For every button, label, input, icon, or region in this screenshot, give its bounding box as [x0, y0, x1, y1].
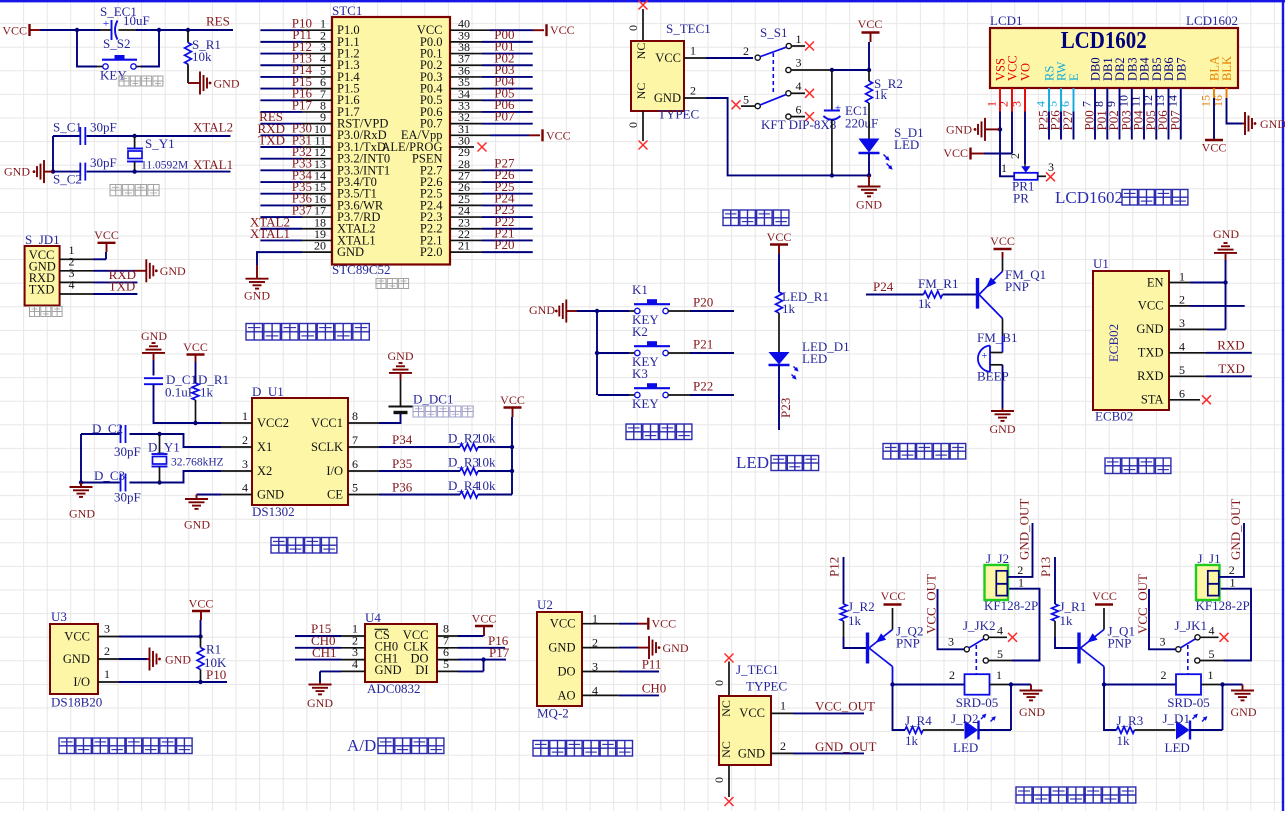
node junction EC1 top: [830, 68, 834, 72]
svg-text:MQ-2: MQ-2: [537, 706, 569, 721]
wire U1 STA: [1169, 399, 1200, 401]
svg-text:6: 6: [1179, 387, 1185, 401]
node junction coil right: [1220, 682, 1224, 686]
svg-text:4: 4: [796, 79, 802, 93]
node junction emitter rail: [890, 682, 894, 686]
svg-text:2: 2: [780, 739, 786, 753]
svg-text:PNP: PNP: [1108, 636, 1132, 651]
resistor S_R1 10k: [187, 30, 189, 43]
title anjian dianlu: [626, 424, 642, 440]
resistor R1 10K: [200, 637, 202, 648]
svg-text:3: 3: [1160, 635, 1166, 649]
svg-text:LED: LED: [1165, 740, 1190, 755]
ground GND (J_Q1 channel): [1223, 684, 1243, 686]
svg-text:GND: GND: [388, 349, 414, 363]
wire XTAL2 net: [53, 135, 80, 137]
svg-text:1k: 1k: [874, 87, 888, 102]
wire VCC_OUT to J_JK2 pin3: [938, 589, 965, 649]
wire LCD pin8 DB1: [1106, 88, 1108, 140]
svg-text:3: 3: [242, 457, 248, 471]
pin 2 wire S_TEC1 GND: [684, 97, 706, 99]
resistor D_R4 10k: [460, 491, 478, 498]
svg-text:0: 0: [626, 25, 640, 31]
svg-text:DO: DO: [557, 665, 575, 679]
svg-text:0: 0: [626, 122, 640, 128]
label niukou dianchi zuo (comment): [413, 406, 424, 417]
wire U1 RXD: [1169, 375, 1206, 377]
svg-text:LED: LED: [953, 740, 978, 755]
svg-text:GND_OUT: GND_OUT: [815, 739, 876, 754]
svg-text:1: 1: [996, 668, 1002, 682]
resistor FM_R1 1k: [924, 291, 943, 298]
resistor J_R2 1k: [840, 604, 847, 621]
svg-text:3: 3: [1179, 316, 1185, 330]
svg-text:5: 5: [443, 657, 449, 671]
svg-text:ECB02: ECB02: [1095, 409, 1133, 424]
pin 1 wire S_JD1 to VCC: [60, 258, 94, 260]
no-connect X S_TEC1 top: [639, 1, 648, 10]
svg-text:STC89C52: STC89C52: [332, 262, 391, 277]
pin7 wire D_U1 SCLK: [348, 446, 379, 448]
transistor FM_Q1 PNP: [976, 278, 979, 309]
svg-text:GND: GND: [1136, 322, 1163, 336]
no-connect X J_JK2 pin4: [1008, 633, 1017, 642]
node junction at S_EC1 left: [75, 28, 79, 32]
svg-text:U2: U2: [537, 597, 553, 612]
svg-text:P20: P20: [494, 237, 514, 252]
svg-text:VCC: VCC: [94, 228, 119, 242]
svg-text:BLK: BLK: [1220, 56, 1234, 81]
LED LED_D1: [769, 352, 790, 365]
svg-text:J_TEC1: J_TEC1: [736, 662, 779, 677]
svg-text:VCC: VCC: [183, 340, 208, 354]
svg-text:VCC: VCC: [546, 128, 571, 142]
svg-text:10k: 10k: [476, 478, 496, 493]
svg-text:CH1: CH1: [312, 645, 337, 660]
svg-text:5: 5: [1209, 647, 1215, 661]
wire LED branch: [893, 685, 906, 731]
svg-text:10uF: 10uF: [123, 13, 150, 28]
wire LED to coil junction: [979, 729, 1012, 731]
wire D_R2 to VCC rail: [478, 446, 512, 448]
svg-text:NC: NC: [634, 43, 648, 60]
wire J_JK1 pin4: [1200, 636, 1218, 638]
svg-text:1: 1: [690, 44, 696, 58]
svg-text:P21: P21: [693, 337, 713, 352]
svg-text:E: E: [1067, 73, 1081, 81]
node junction EC1 bottom: [830, 173, 834, 177]
svg-text:AO: AO: [557, 688, 575, 702]
svg-text:1k: 1k: [1060, 613, 1074, 628]
pin5 wire D_U1 CE: [348, 494, 379, 496]
svg-text:VCC: VCC: [990, 234, 1015, 248]
svg-text:VCC: VCC: [767, 230, 792, 244]
wire U1 VCC: [1169, 305, 1190, 307]
svg-text:3: 3: [948, 635, 954, 649]
svg-text:1: 1: [1001, 161, 1007, 175]
no-connect X PR1 pin3: [1046, 172, 1055, 181]
svg-text:S_S2: S_S2: [103, 36, 130, 51]
svg-text:VCC: VCC: [189, 597, 214, 611]
svg-text:6: 6: [352, 457, 358, 471]
svg-text:VCC: VCC: [1138, 299, 1164, 313]
capacitor D_C2 30pF: [120, 425, 122, 443]
svg-text:1k: 1k: [918, 296, 932, 311]
resistor S_R2 1k: [868, 70, 870, 81]
ground GND (clock caps): [80, 483, 82, 488]
svg-text:J_JK1: J_JK1: [1175, 618, 1208, 633]
svg-text:P36: P36: [392, 480, 413, 495]
svg-text:XTAL1: XTAL1: [250, 226, 290, 241]
svg-text:A/D: A/D: [347, 736, 376, 755]
wire base: [844, 637, 867, 648]
svg-text:VCC2: VCC2: [257, 416, 289, 430]
svg-text:GND: GND: [663, 641, 689, 655]
svg-text:TYPEC: TYPEC: [746, 679, 787, 694]
svg-text:2: 2: [242, 433, 248, 447]
svg-text:D_R4: D_R4: [448, 478, 480, 493]
svg-text:D_U1: D_U1: [252, 384, 284, 399]
title jidianqi kongzhi dianlu: [1016, 787, 1032, 803]
svg-text:K3: K3: [632, 366, 648, 381]
svg-text:30pF: 30pF: [114, 444, 141, 459]
title fangshui wendu caiji mokuai: [59, 738, 75, 754]
power port VCC (MCU pin40): [545, 24, 547, 36]
capacitor S_C2 30pF: [79, 163, 81, 181]
svg-text:XTAL1: XTAL1: [193, 157, 233, 172]
svg-text:GND: GND: [160, 264, 186, 278]
svg-text:LCD1602: LCD1602: [1186, 13, 1238, 28]
svg-text:P13: P13: [1038, 557, 1053, 577]
svg-text:P07: P07: [494, 109, 515, 124]
resistor LED_R1 1k: [778, 254, 780, 292]
svg-text:GND: GND: [738, 746, 765, 760]
wire D_C1 to pin1 rail: [154, 384, 222, 423]
svg-text:ADC0832: ADC0832: [367, 681, 420, 696]
wire J_JK2 pin5 to J_J2: [988, 660, 1012, 662]
svg-text:D_R3: D_R3: [448, 455, 479, 470]
svg-text:VCC_OUT: VCC_OUT: [1135, 574, 1150, 634]
power port VCC (U2): [638, 623, 647, 625]
svg-text:+: +: [982, 351, 988, 362]
wire P13 vertical: [1054, 557, 1056, 604]
wire relay coil right: [1201, 684, 1223, 686]
no-connect X pin30: [478, 143, 487, 152]
resistor J_R1 1k: [1052, 604, 1059, 621]
pin 0 wire S_TEC1 bottom: [642, 111, 644, 141]
push button K2: [598, 352, 629, 354]
svg-text:GND: GND: [548, 641, 575, 655]
svg-text:VCC: VCC: [1202, 141, 1227, 155]
svg-text:GND: GND: [529, 303, 555, 317]
push button K1: [598, 310, 629, 312]
transistor J_Q2 PNP: [866, 633, 869, 664]
svg-text:GND: GND: [307, 696, 333, 710]
svg-text:1k: 1k: [1117, 733, 1131, 748]
svg-text:U3: U3: [51, 609, 67, 624]
node junction DO/DI: [481, 657, 485, 661]
svg-text:VCC: VCC: [858, 17, 883, 31]
svg-text:PNP: PNP: [1005, 279, 1029, 294]
svg-text:GND: GND: [63, 652, 90, 666]
svg-text:VCC: VCC: [739, 706, 765, 720]
svg-text:GND: GND: [1019, 705, 1045, 719]
svg-text:5: 5: [352, 481, 358, 495]
power port VCC (LCD backlight): [1205, 139, 1223, 141]
wire LCD pin10 DB3: [1131, 88, 1133, 140]
svg-text:2: 2: [1179, 293, 1185, 307]
svg-text:P10: P10: [206, 667, 226, 682]
resistor D_R1 1k: [195, 362, 197, 383]
ground GND (U3): [147, 658, 150, 660]
svg-text:D_C3: D_C3: [94, 468, 125, 483]
no-connect X J_JK1 pin4: [1220, 633, 1229, 642]
svg-text:5: 5: [997, 647, 1003, 661]
svg-text:CH0: CH0: [642, 680, 667, 695]
svg-text:KF128-2P: KF128-2P: [984, 598, 1038, 613]
svg-text:P17: P17: [489, 645, 510, 660]
wire D_R4 to VCC rail: [478, 494, 512, 496]
svg-text:KFT DIP-8X8: KFT DIP-8X8: [761, 117, 836, 132]
svg-text:VO: VO: [1019, 63, 1033, 81]
svg-text:4: 4: [242, 481, 248, 495]
svg-text:4: 4: [1179, 340, 1185, 354]
pin 0 wire J_TEC1 top: [728, 662, 730, 697]
svg-text:1: 1: [796, 32, 802, 46]
label danpianji (gray): [376, 279, 386, 289]
svg-text:GND_OUT: GND_OUT: [1017, 499, 1032, 560]
svg-text:VCC: VCC: [64, 630, 90, 644]
svg-text:ECB02: ECB02: [1106, 324, 1121, 362]
svg-text:4: 4: [352, 657, 358, 671]
capacitor S_C1 30pF: [79, 127, 81, 145]
svg-text:X1: X1: [257, 440, 272, 454]
title shizhong dianlu: [271, 538, 287, 554]
svg-text:I/O: I/O: [326, 464, 343, 478]
wire K1 to P20: [668, 310, 690, 312]
node junction crystal bottom: [132, 169, 136, 173]
node junction cap left: [51, 169, 55, 173]
wire S_S1 pin3: [791, 69, 832, 71]
svg-text:VCC: VCC: [1092, 589, 1117, 603]
svg-text:SRD-05: SRD-05: [956, 695, 999, 710]
wire K3 to P22: [668, 394, 690, 396]
wire LCD pin16 BLK: [1226, 88, 1228, 98]
node junction R1 bottom: [198, 680, 202, 684]
svg-text:PR: PR: [1013, 191, 1029, 206]
svg-text:P34: P34: [392, 432, 413, 447]
wire buzzer to GND: [1002, 365, 1004, 408]
node junction coil right: [1009, 682, 1013, 686]
node junction crystal top (clock): [157, 432, 161, 436]
node junction K1: [595, 309, 599, 313]
svg-text:GND: GND: [141, 329, 167, 343]
sheet border right: [1282, 0, 1284, 811]
svg-text:RXD: RXD: [1217, 337, 1244, 352]
wire LCD pin1 VSS: [999, 88, 1001, 112]
svg-text:K1: K1: [632, 282, 648, 297]
node junction GND rail: [867, 173, 871, 177]
svg-text:P37: P37: [292, 202, 313, 217]
wire LCD pin3 VO: [1024, 88, 1026, 112]
wire LED_D1 to P23: [778, 365, 780, 430]
svg-text:TXD: TXD: [1218, 361, 1245, 376]
svg-text:RES: RES: [206, 13, 230, 28]
wire LCD pin14 DB7: [1180, 88, 1182, 140]
svg-text:J_R4: J_R4: [905, 713, 932, 728]
ground GND (reset): [188, 82, 200, 84]
svg-text:20: 20: [314, 239, 326, 253]
wire J_JK1 pin5 to J_J1: [1200, 660, 1224, 662]
svg-text:5: 5: [743, 93, 749, 107]
ground GND (LCD backlight): [1242, 123, 1245, 125]
svg-text:VCC: VCC: [1006, 55, 1020, 81]
svg-text:1: 1: [780, 699, 786, 713]
svg-text:GND: GND: [337, 245, 364, 259]
svg-text:11.0592M: 11.0592M: [141, 160, 188, 172]
svg-text:TXD: TXD: [258, 133, 285, 148]
svg-text:2: 2: [949, 668, 955, 682]
svg-text:1: 1: [242, 409, 248, 423]
no-connect X S_S1 pin5: [732, 100, 741, 109]
svg-text:BEEP: BEEP: [977, 369, 1009, 384]
svg-text:21: 21: [458, 239, 470, 253]
svg-text:+: +: [103, 18, 109, 30]
svg-text:5: 5: [1179, 363, 1185, 377]
resistor J_R3 1k: [1117, 727, 1135, 734]
wire emitter down: [892, 667, 894, 685]
svg-text:J_J1: J_J1: [1198, 551, 1221, 566]
crystal D_Y1 32.768kHZ: [159, 434, 161, 454]
svg-text:GND: GND: [257, 488, 284, 502]
title dianyuan dianlu: [723, 210, 739, 226]
wire XTAL1 net: [53, 171, 80, 173]
wire rail to relay coil: [893, 684, 965, 686]
wire base: [1055, 637, 1078, 648]
svg-text:0.1uF: 0.1uF: [165, 385, 195, 400]
svg-text:30pF: 30pF: [114, 490, 141, 505]
wire emitter down: [1103, 667, 1105, 685]
node junction at S_EC1 right: [157, 28, 161, 32]
svg-text:GND: GND: [244, 289, 270, 303]
svg-text:VCC: VCC: [881, 589, 906, 603]
capacitor D_C1 0.1uF: [144, 377, 163, 379]
svg-text:LED: LED: [802, 351, 827, 366]
svg-text:220uF: 220uF: [845, 116, 878, 131]
wire J_J1 pin2 GND_OUT: [1219, 523, 1245, 577]
svg-text:STA: STA: [1141, 393, 1164, 407]
svg-text:4: 4: [997, 624, 1003, 638]
svg-text:FM_R1: FM_R1: [918, 276, 958, 291]
svg-text:1: 1: [1208, 668, 1214, 682]
wire relay coil right: [990, 684, 1012, 686]
ground GND (S_JD1): [135, 270, 147, 272]
pin 2 wire J_TEC1 GND_OUT: [771, 752, 793, 754]
svg-text:2: 2: [104, 644, 110, 658]
ground GND (power circuit): [868, 175, 870, 186]
wire LCD pin7 DB0: [1094, 88, 1096, 140]
svg-text:J_R3: J_R3: [1117, 713, 1144, 728]
ground GND (D_U1 pin4): [221, 494, 252, 496]
ground GND (U2): [638, 647, 649, 649]
svg-text:P17: P17: [292, 97, 313, 112]
svg-text:1k: 1k: [905, 733, 919, 748]
wire U1 EN: [1169, 282, 1190, 284]
capacitor EC1 220uF polarized: [831, 70, 833, 110]
label anjian fuwei (gray): [119, 76, 129, 86]
pin 0 wire S_TEC1 top: [642, 9, 644, 41]
pin3 wire D_U1 X2: [221, 470, 252, 472]
node junction EN/GND: [1223, 280, 1227, 284]
svg-text:P22: P22: [693, 379, 713, 394]
wire PR1 pin3: [1038, 175, 1046, 177]
wire P24 to FM_R1: [866, 294, 924, 296]
svg-text:DS1302: DS1302: [252, 504, 295, 519]
wire emitter to buzzer: [1002, 319, 1004, 337]
svg-text:8: 8: [352, 409, 358, 423]
wire LCD pin6 E: [1073, 88, 1075, 112]
power port VCC (J_Q2): [892, 608, 894, 630]
svg-text:P11: P11: [642, 657, 662, 672]
wire U1 TXD: [1169, 352, 1206, 354]
push button K3: [598, 394, 629, 396]
svg-text:+: +: [835, 103, 841, 115]
sheet border top: [0, 0, 1285, 2]
svg-text:CE: CE: [327, 488, 343, 502]
svg-text:STC1: STC1: [332, 3, 362, 18]
LED J_D2: [965, 721, 979, 740]
svg-text:P12: P12: [827, 557, 842, 577]
power port VCC (J_Q1): [1103, 608, 1105, 630]
svg-text:NC: NC: [719, 741, 733, 758]
node junction K2: [595, 351, 599, 355]
node junction caps left: [79, 480, 83, 484]
svg-text:GND: GND: [1231, 705, 1257, 719]
node junction VCC rail top: [867, 68, 871, 72]
wire LCD pin12 DB5: [1155, 88, 1157, 140]
pin1 wire D_U1: [221, 422, 252, 424]
pin6 wire D_U1 I/O: [348, 470, 379, 472]
wire LCD pin11 DB4: [1143, 88, 1145, 140]
wire S_S1 pin4: [791, 92, 805, 94]
svg-text:LCD1602: LCD1602: [1055, 188, 1123, 207]
svg-text:NC: NC: [719, 700, 733, 717]
wire LCD pin4 RS: [1048, 88, 1050, 112]
svg-text:2: 2: [1008, 153, 1022, 159]
svg-text:DI: DI: [415, 663, 428, 677]
wire LCD pin2 VCC: [1011, 88, 1013, 112]
svg-text:SCLK: SCLK: [311, 440, 343, 454]
ground GND (J_Q2 channel): [1011, 684, 1031, 686]
wire LCD pin13 DB6: [1168, 88, 1170, 140]
svg-text:P23: P23: [778, 398, 793, 418]
svg-text:KF128-2P: KF128-2P: [1196, 598, 1250, 613]
svg-text:0: 0: [712, 777, 726, 783]
svg-text:2: 2: [1161, 668, 1167, 682]
svg-text:FM_B1: FM_B1: [977, 330, 1017, 345]
svg-text:4: 4: [1209, 624, 1215, 638]
svg-text:D_DC1: D_DC1: [413, 392, 453, 407]
title fengmingqi dianlu: [883, 444, 899, 460]
no-connect X S_S1 pin1: [805, 42, 814, 51]
svg-text:GND: GND: [184, 518, 210, 532]
pin2 wire D_U1 X1: [221, 446, 252, 448]
svg-text:3: 3: [1048, 160, 1054, 174]
svg-text:GND: GND: [214, 76, 240, 90]
svg-text:XTAL2: XTAL2: [193, 120, 233, 135]
pin 1 wire S_TEC1 VCC: [684, 57, 706, 59]
svg-text:P27: P27: [1060, 110, 1075, 131]
